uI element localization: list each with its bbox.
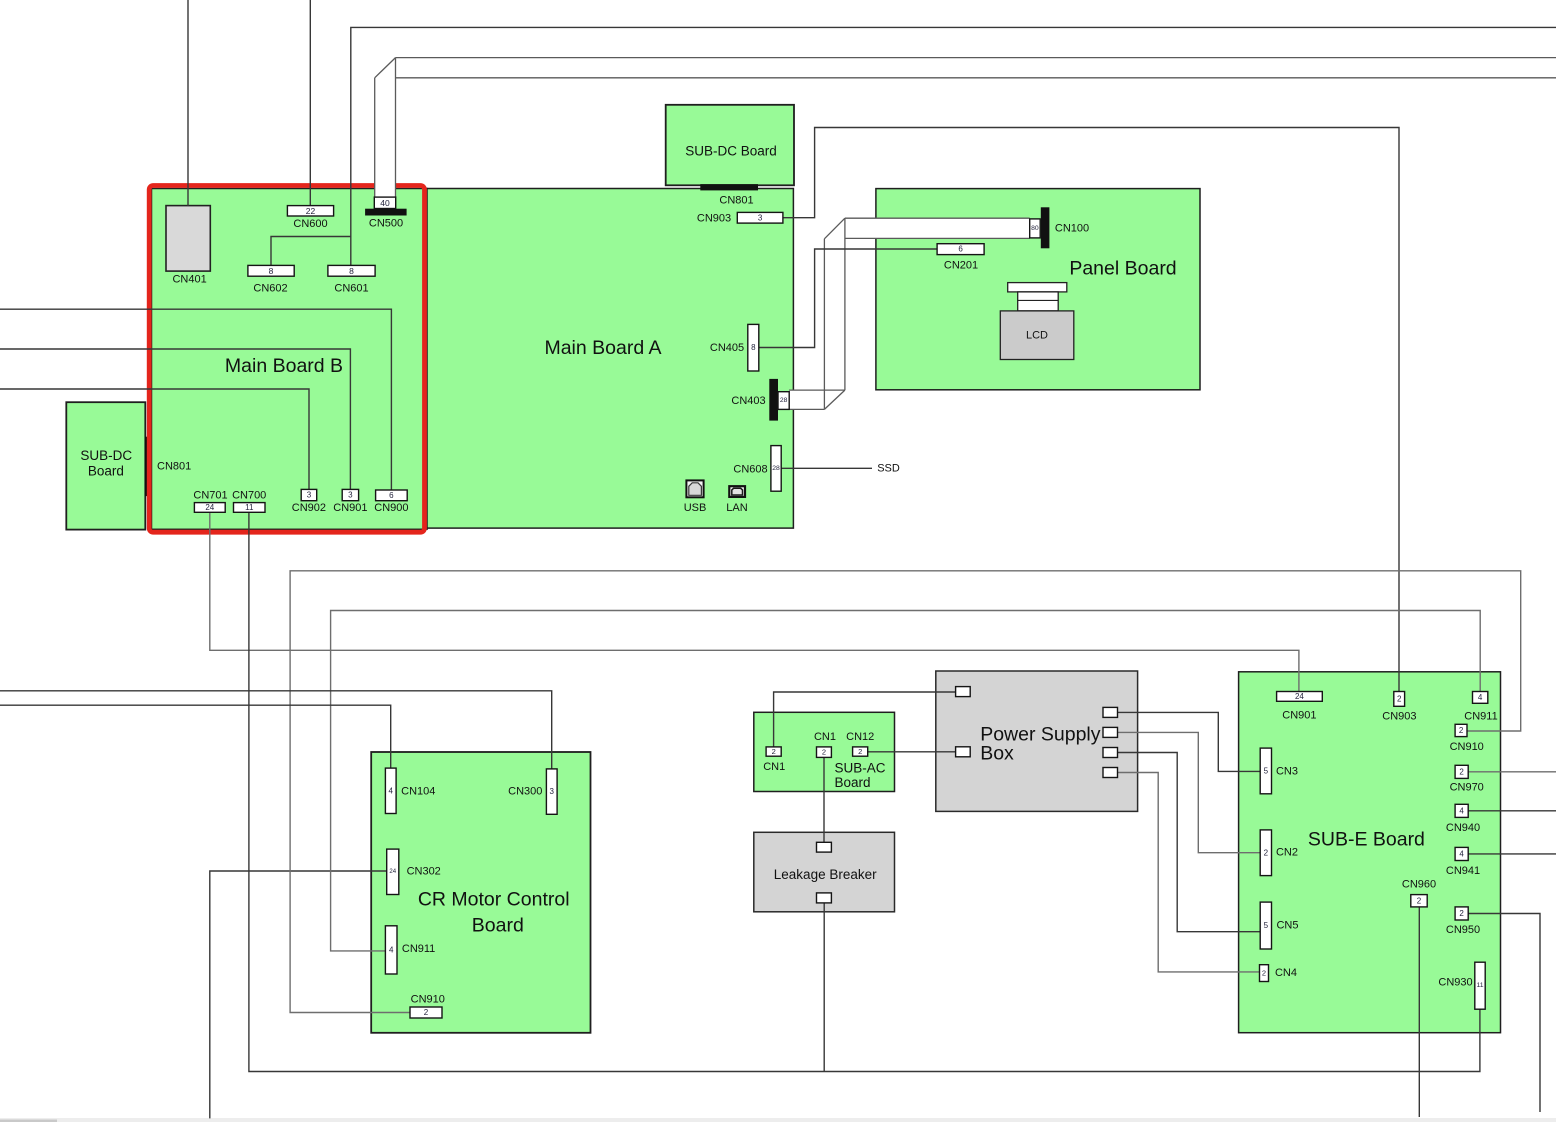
svg-text:CN970: CN970 [1450, 782, 1484, 794]
svg-text:Panel Board: Panel Board [1069, 258, 1176, 280]
svg-text:CN4: CN4 [1275, 967, 1297, 979]
svg-text:11: 11 [245, 503, 254, 512]
svg-text:CN602: CN602 [253, 283, 287, 295]
svg-text:CN608: CN608 [733, 464, 767, 476]
svg-text:2: 2 [1264, 848, 1269, 857]
svg-text:CN903: CN903 [1382, 711, 1416, 723]
svg-text:22: 22 [306, 206, 316, 216]
svg-text:CN911: CN911 [402, 943, 435, 955]
svg-text:CN600: CN600 [293, 218, 327, 230]
svg-text:6: 6 [389, 491, 394, 500]
svg-text:4: 4 [389, 945, 394, 954]
svg-text:CN100: CN100 [1055, 222, 1089, 234]
svg-text:CN302: CN302 [407, 866, 441, 878]
svg-text:CN3: CN3 [1276, 766, 1298, 778]
svg-text:CN901: CN901 [333, 502, 367, 514]
svg-text:CN930: CN930 [1438, 977, 1472, 989]
svg-text:11: 11 [1476, 982, 1483, 989]
svg-text:CN900: CN900 [374, 502, 408, 514]
svg-text:4: 4 [1459, 849, 1464, 858]
svg-text:SUB-E Board: SUB-E Board [1308, 829, 1425, 851]
svg-text:CN911: CN911 [1464, 711, 1497, 723]
svg-text:CN903: CN903 [697, 213, 731, 225]
svg-text:CR Motor Control: CR Motor Control [418, 889, 570, 911]
svg-text:24: 24 [205, 503, 214, 512]
svg-text:CN940: CN940 [1446, 822, 1480, 834]
svg-text:2: 2 [1417, 896, 1422, 905]
svg-text:Main Board B: Main Board B [225, 355, 343, 377]
svg-text:CN700: CN700 [232, 490, 266, 502]
svg-text:CN601: CN601 [334, 283, 368, 295]
svg-text:2: 2 [1459, 909, 1464, 918]
svg-text:CN801: CN801 [157, 461, 191, 473]
svg-text:3: 3 [758, 213, 763, 222]
svg-text:80: 80 [1031, 225, 1039, 232]
svg-text:Board: Board [834, 775, 870, 790]
svg-text:CN5: CN5 [1276, 920, 1298, 932]
svg-text:LCD: LCD [1026, 330, 1048, 342]
svg-text:USB: USB [684, 502, 707, 514]
svg-text:5: 5 [1264, 766, 1269, 775]
svg-text:CN2: CN2 [1276, 847, 1298, 859]
svg-text:2: 2 [822, 748, 826, 757]
svg-text:3: 3 [348, 491, 353, 500]
svg-text:CN500: CN500 [369, 218, 403, 230]
svg-text:24: 24 [389, 869, 396, 875]
svg-text:Board: Board [88, 464, 124, 479]
svg-text:4: 4 [1478, 693, 1483, 702]
svg-text:6: 6 [958, 245, 963, 254]
svg-text:2: 2 [772, 747, 776, 756]
svg-text:2: 2 [1262, 969, 1266, 978]
svg-text:SSD: SSD [877, 462, 900, 474]
svg-text:CN403: CN403 [731, 395, 765, 407]
svg-text:CN950: CN950 [1446, 924, 1480, 936]
svg-text:4: 4 [389, 786, 394, 795]
svg-text:CN901: CN901 [1282, 710, 1316, 722]
svg-text:CN902: CN902 [292, 502, 326, 514]
svg-text:2: 2 [424, 1008, 429, 1017]
svg-text:28: 28 [780, 397, 788, 404]
svg-text:4: 4 [1459, 806, 1464, 815]
svg-text:SUB-DC: SUB-DC [80, 448, 132, 463]
svg-text:24: 24 [1295, 692, 1304, 701]
svg-text:CN1: CN1 [814, 731, 836, 743]
svg-text:CN801: CN801 [719, 195, 753, 207]
svg-text:8: 8 [349, 266, 354, 276]
svg-text:CN401: CN401 [172, 274, 206, 286]
svg-text:SUB-AC: SUB-AC [834, 761, 885, 776]
svg-text:Main Board A: Main Board A [544, 337, 661, 359]
svg-text:CN941: CN941 [1446, 865, 1480, 877]
svg-text:8: 8 [751, 343, 756, 352]
svg-text:2: 2 [1459, 726, 1464, 735]
svg-text:LAN: LAN [726, 502, 747, 514]
svg-text:8: 8 [269, 266, 274, 276]
svg-text:28: 28 [772, 465, 780, 472]
svg-text:5: 5 [1264, 921, 1269, 930]
svg-text:Box: Box [980, 743, 1014, 765]
svg-text:Board: Board [472, 915, 524, 937]
svg-text:CN300: CN300 [508, 786, 542, 798]
svg-text:CN960: CN960 [1402, 878, 1436, 890]
svg-text:CN201: CN201 [944, 260, 978, 272]
svg-text:40: 40 [380, 198, 390, 208]
svg-text:2: 2 [858, 747, 862, 756]
svg-text:Leakage Breaker: Leakage Breaker [774, 867, 877, 882]
svg-text:CN405: CN405 [710, 342, 744, 354]
svg-text:CN104: CN104 [401, 786, 435, 798]
svg-text:CN701: CN701 [193, 490, 227, 502]
svg-text:SUB-DC Board: SUB-DC Board [685, 144, 777, 159]
svg-text:CN910: CN910 [1450, 741, 1484, 753]
svg-text:3: 3 [307, 491, 312, 500]
svg-text:2: 2 [1459, 767, 1464, 776]
svg-text:CN910: CN910 [411, 994, 445, 1006]
svg-text:CN1: CN1 [763, 761, 785, 773]
svg-text:CN12: CN12 [846, 731, 874, 743]
svg-text:3: 3 [550, 787, 555, 796]
svg-text:2: 2 [1397, 694, 1402, 703]
